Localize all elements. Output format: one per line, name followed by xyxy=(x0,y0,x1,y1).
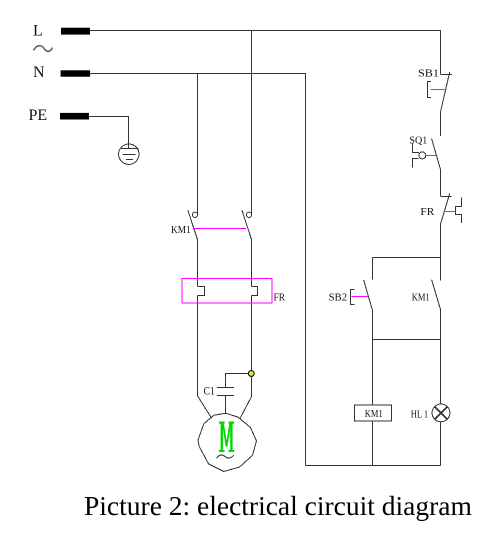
svg-text:SB2: SB2 xyxy=(329,291,348,303)
svg-text:SQ1: SQ1 xyxy=(409,135,427,147)
svg-text:FR: FR xyxy=(274,292,286,304)
svg-text:L: L xyxy=(33,23,43,40)
svg-text:SB1: SB1 xyxy=(418,67,439,79)
svg-text:FR: FR xyxy=(420,206,435,218)
svg-text:KM1: KM1 xyxy=(171,224,191,236)
svg-text:C1: C1 xyxy=(204,385,215,397)
svg-text:N: N xyxy=(33,64,45,81)
svg-text:KM1: KM1 xyxy=(365,408,383,420)
svg-text:KM1: KM1 xyxy=(412,291,430,303)
svg-text:Picture 2: electrical circuit: Picture 2: electrical circuit diagram xyxy=(84,490,472,521)
svg-text:HL 1: HL 1 xyxy=(411,409,428,421)
svg-text:PE: PE xyxy=(29,107,48,124)
